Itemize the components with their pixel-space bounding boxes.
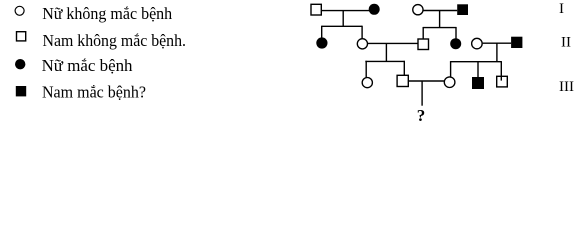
I-1 unaffected male square [311, 4, 321, 15]
legend symbol: affected female filled circle [15, 59, 25, 69]
wire drop to II-1 [321, 26, 323, 38]
wire drop to III-1 [365, 61, 367, 77]
svg-text:Nữ không mắc bệnh: Nữ không mắc bệnh [42, 4, 172, 23]
wire sibship line of couple I-3/I-4 [423, 27, 457, 29]
wire descent from couple II-2/II-3 [385, 43, 387, 61]
wire drop to III-4 [477, 61, 479, 77]
wire drop to II-4 [455, 27, 457, 39]
III-2 unaffected male square [397, 75, 408, 86]
wire drop to II-3 [422, 27, 424, 39]
wire sibship line of couple I-1/I-2 [322, 25, 362, 27]
II-3 unaffected male square [418, 39, 429, 50]
svg-text:Nam không mắc bệnh.: Nam không mắc bệnh. [43, 31, 187, 50]
II-6 affected male filled square [511, 37, 522, 48]
wire sibship line of couple II-2/II-3 [365, 60, 405, 62]
II-2 unaffected female circle [357, 39, 367, 49]
II-4 affected female filled circle [450, 38, 461, 49]
wire marriage I-1 to I-2 [322, 10, 370, 12]
wire marriage II-2 to II-3 [368, 42, 418, 44]
wire marriage II-5 to II-6 [483, 42, 512, 44]
wire drop to III-2 [403, 61, 405, 76]
III-1 unaffected female circle [362, 78, 372, 88]
svg-text:I: I [559, 1, 564, 17]
III-3 unaffected female circle [444, 77, 455, 88]
I-2 affected female filled circle [369, 4, 380, 15]
legend symbol: unaffected female circle [15, 6, 24, 15]
II-5 unaffected female circle [472, 38, 483, 49]
legend symbol: unaffected male square [17, 32, 26, 41]
legend symbol: affected male filled square [16, 86, 26, 96]
II-1 affected female filled circle [316, 37, 327, 48]
wire descent from couple I-3/I-4 [439, 11, 441, 28]
wire drop to III-5 [500, 61, 502, 81]
wire descent from couple III-2/III-3 [421, 81, 423, 106]
I-3 unaffected female circle [413, 5, 423, 15]
wire drop to III-3 [450, 61, 452, 76]
wire sibship line of couple II-5/II-6 [450, 61, 501, 63]
svg-text:?: ? [417, 106, 426, 125]
wire marriage III-2 to III-3 [409, 80, 445, 82]
III-4 affected male filled square [472, 77, 484, 89]
wire drop to II-2 [361, 26, 363, 39]
svg-text:Nữ mắc bệnh: Nữ mắc bệnh [42, 56, 133, 75]
wire descent from couple II-5/II-6 [496, 44, 498, 62]
wire marriage I-3 to I-4 [423, 10, 457, 12]
svg-text:II: II [561, 35, 571, 51]
wire descent from couple I-1/I-2 [342, 11, 344, 27]
svg-text:Nam mắc bệnh?: Nam mắc bệnh? [42, 83, 146, 102]
III-5 unaffected male square [497, 76, 508, 87]
svg-text:III: III [559, 79, 574, 95]
I-4 affected male filled square [457, 4, 468, 15]
